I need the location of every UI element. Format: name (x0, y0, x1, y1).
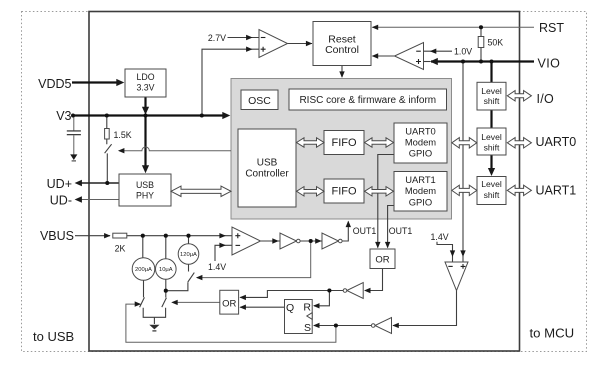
svg-text:Q: Q (286, 302, 294, 314)
svg-text:USB: USB (136, 180, 154, 190)
svg-text:10μA: 10μA (159, 267, 173, 273)
svg-text:RISC core & firmware & inform: RISC core & firmware & inform (299, 95, 436, 106)
svg-text:V3: V3 (56, 109, 71, 123)
svg-text:OSC: OSC (248, 95, 271, 107)
svg-text:OUT1: OUT1 (353, 226, 377, 236)
svg-text:1.4V: 1.4V (431, 232, 449, 242)
svg-text:OR: OR (375, 254, 389, 265)
svg-text:1.5K: 1.5K (114, 130, 132, 140)
svg-text:GPIO: GPIO (409, 196, 432, 207)
svg-text:UART0: UART0 (405, 125, 436, 136)
svg-text:to USB: to USB (33, 329, 74, 344)
svg-text:OUT1: OUT1 (389, 226, 413, 236)
svg-text:I/O: I/O (537, 92, 555, 106)
svg-text:UD+: UD+ (47, 177, 72, 191)
svg-text:GPIO: GPIO (409, 148, 432, 159)
svg-text:Control: Control (325, 44, 359, 56)
svg-text:UART1: UART1 (536, 183, 577, 197)
svg-text:FIFO: FIFO (331, 186, 356, 198)
svg-text:120μA: 120μA (180, 252, 197, 258)
svg-text:USB: USB (257, 157, 278, 168)
svg-text:Level: Level (481, 132, 502, 142)
svg-text:to MCU: to MCU (530, 325, 575, 340)
svg-text:2.7V: 2.7V (208, 33, 226, 43)
svg-text:S: S (304, 322, 311, 334)
svg-text:UART0: UART0 (536, 135, 577, 149)
svg-text:Level: Level (481, 179, 502, 189)
svg-text:VDD5: VDD5 (38, 77, 71, 91)
svg-text:UD-: UD- (50, 194, 72, 208)
svg-text:LDO: LDO (136, 72, 154, 82)
svg-text:shift: shift (484, 142, 500, 152)
svg-text:Controller: Controller (245, 169, 289, 180)
svg-text:50K: 50K (488, 38, 504, 48)
svg-text:RST: RST (539, 21, 564, 35)
svg-text:2K: 2K (115, 244, 126, 254)
svg-text:shift: shift (484, 190, 500, 200)
svg-text:Level: Level (481, 86, 502, 96)
svg-text:Modem: Modem (405, 137, 436, 148)
svg-text:FIFO: FIFO (331, 137, 356, 149)
svg-text:1.4V: 1.4V (208, 262, 226, 272)
svg-text:VBUS: VBUS (40, 229, 74, 243)
svg-text:OR: OR (222, 299, 236, 310)
svg-text:R: R (303, 302, 311, 314)
svg-text:200μA: 200μA (135, 267, 152, 273)
svg-text:VIO: VIO (538, 56, 561, 70)
svg-text:PHY: PHY (136, 191, 154, 201)
svg-text:Modem: Modem (405, 185, 436, 196)
svg-text:1.0V: 1.0V (454, 47, 472, 57)
svg-text:shift: shift (484, 96, 500, 106)
svg-text:UART1: UART1 (405, 174, 436, 185)
svg-text:3.3V: 3.3V (136, 83, 154, 93)
